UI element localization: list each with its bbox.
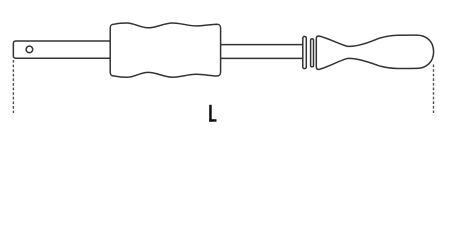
handle	[316, 35, 433, 69]
grip sleeve (wavy)	[110, 23, 220, 77]
sliding bar (flat blade)	[13, 41, 116, 58]
collar ring	[311, 39, 314, 67]
hanging hole	[26, 46, 33, 53]
left extension dashed line	[12, 60, 14, 113]
ferrule disc	[303, 37, 307, 69]
label L	[209, 105, 216, 122]
right extension dashed line	[433, 65, 435, 114]
shaft	[221, 45, 304, 59]
